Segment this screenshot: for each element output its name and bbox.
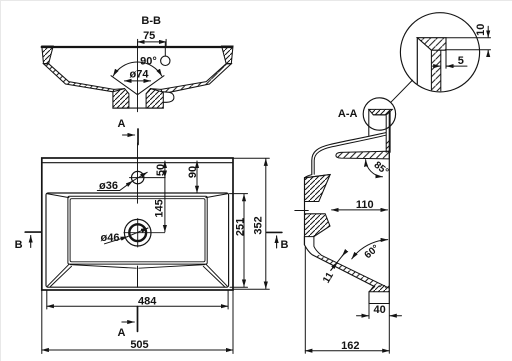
svg-text:162: 162: [341, 340, 359, 352]
drain boss left block (hatched): [113, 89, 129, 109]
dimension 75: [138, 30, 167, 46]
svg-text:85°: 85°: [372, 160, 391, 178]
section arrow A (bottom): [118, 307, 138, 339]
dimension 162: [304, 247, 306, 353]
svg-text:40: 40: [373, 304, 385, 316]
svg-text:ø46: ø46: [101, 232, 120, 244]
dimension 352: [233, 157, 269, 159]
faucet hole circle (B-B): [161, 56, 170, 65]
leader dia36: [120, 181, 133, 191]
svg-text:90°: 90°: [140, 55, 157, 67]
basin rim top line (B-B): [42, 46, 232, 48]
rim inner top line: [42, 162, 233, 164]
dimension 5 (detail): [432, 65, 440, 67]
angle arc 85 deg: [366, 160, 383, 177]
front wall lower outer edge: [304, 237, 374, 287]
svg-text:251: 251: [234, 218, 246, 236]
dimension 505: [41, 291, 43, 354]
svg-text:B-B: B-B: [141, 15, 161, 27]
dimension 110: [332, 209, 388, 211]
dimension 10 (detail): [446, 37, 491, 39]
bowl corner diagonal top-right: [206, 194, 228, 198]
drain channel vertical: [137, 266, 139, 287]
detail balloon small circle: [363, 98, 395, 130]
dimension dia74: [124, 80, 150, 82]
left wall band (B-B): [44, 64, 115, 92]
angle arc 60 deg: [352, 240, 388, 259]
centerline plan: [137, 143, 139, 203]
right wall band (B-B): [161, 64, 231, 93]
bowl corner diagonal bottom-left (double): [47, 264, 71, 286]
back wall outer line: [388, 112, 390, 304]
detail groove right line: [445, 50, 447, 68]
svg-text:A: A: [118, 118, 126, 130]
bottom slope band hatch: [313, 255, 390, 288]
svg-text:5: 5: [458, 55, 464, 67]
dimension 90: [196, 161, 198, 193]
svg-text:ø74: ø74: [130, 68, 150, 80]
foot: [369, 287, 389, 304]
overflow hole tick: [295, 210, 309, 212]
svg-text:B: B: [281, 239, 289, 251]
angle arc 90 deg: [113, 62, 162, 76]
rim top bar (A-A, hatched): [369, 109, 393, 115]
bowl bottom inner line right: [150, 88, 161, 91]
dimension 145: [164, 178, 166, 232]
section mark B left: [15, 232, 42, 251]
svg-text:ø36: ø36: [99, 180, 118, 192]
overflow step arc (right of boss): [163, 92, 174, 102]
faucet hole dia36: [132, 171, 144, 183]
front wall lower block (hatched): [305, 214, 331, 237]
bowl bottom inner line left: [114, 88, 125, 91]
svg-text:484: 484: [138, 295, 157, 307]
dimension 40: [368, 304, 370, 319]
bowl corner diagonal bottom-right (double): [203, 264, 227, 286]
left rim tip (cut, hatched): [42, 46, 53, 64]
svg-text:11: 11: [321, 270, 336, 285]
dimension 251: [230, 193, 248, 195]
svg-text:352: 352: [253, 216, 265, 234]
svg-text:B: B: [15, 239, 23, 251]
svg-text:90: 90: [187, 166, 199, 178]
drain boss right block (hatched): [146, 89, 163, 109]
svg-text:505: 505: [130, 339, 148, 351]
drain hole dia46: [124, 219, 151, 246]
svg-text:75: 75: [143, 30, 155, 42]
bowl inner rectangle (inner of pair): [70, 199, 205, 262]
front wall outer edge (continuous): [304, 178, 306, 245]
dimension 484: [46, 291, 48, 310]
drain slope lines: [70, 265, 205, 269]
section arrow A (top): [118, 118, 138, 145]
deck cut band (hatched): [336, 151, 389, 159]
inner silhouette S-curve: [314, 135, 386, 174]
front rim top edge: [305, 175, 331, 178]
svg-text:A-A: A-A: [338, 108, 358, 120]
front wall upper block (hatched): [305, 175, 331, 202]
drain boss bottom edge: [113, 107, 163, 109]
detail outer wall edge: [416, 38, 418, 92]
svg-text:110: 110: [356, 199, 374, 211]
basin outer rectangle: [42, 158, 233, 290]
svg-text:A: A: [118, 327, 126, 339]
section mark B right: [267, 232, 289, 251]
right rim tip (cut, hatched): [222, 46, 233, 64]
bowl inner rectangle (outer of pair): [68, 196, 207, 264]
outer silhouette S-curve: [305, 133, 386, 178]
detail rim top bar: [417, 38, 446, 51]
taper construction lines (90 deg): [111, 76, 164, 95]
leader dia46: [105, 237, 128, 244]
rim wall strip (A-A): [386, 112, 390, 153]
dimension 11 (wall thickness): [331, 252, 346, 271]
dimension 50: [164, 161, 166, 178]
svg-text:145: 145: [153, 199, 165, 217]
svg-text:50: 50: [155, 164, 167, 176]
centerline B-B: [137, 42, 139, 112]
detail leader line: [391, 80, 413, 102]
detail big circle: [400, 13, 479, 92]
detail wall strip hatched: [431, 50, 440, 92]
svg-text:10: 10: [475, 24, 487, 36]
front wall lower inner edge: [314, 237, 389, 289]
bowl corner diagonal top-left: [47, 194, 69, 198]
bowl outer outline: [46, 193, 229, 287]
